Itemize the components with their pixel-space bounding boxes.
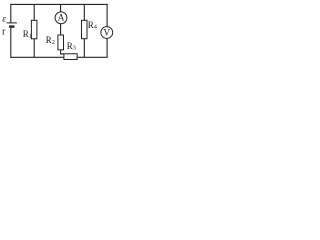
wire R4 bottom lead: [83, 39, 85, 58]
battery cell long plate: [7, 22, 17, 24]
wire right border lower: [106, 39, 108, 58]
battery cell short thick plate: [9, 25, 14, 27]
resistor R1: [31, 20, 37, 39]
wire left border lower: [10, 28, 12, 58]
ammeter U-A circle: [55, 12, 67, 24]
resistor R4: [82, 20, 88, 38]
wire R2 bottom elbow: [61, 50, 64, 54]
wire right border upper: [106, 4, 108, 26]
wire ammeter top lead: [60, 4, 62, 11]
resistor R2: [58, 35, 64, 50]
wire left border upper (battery lead): [10, 4, 12, 23]
resistor R3: [64, 54, 77, 60]
wire R1 top lead: [33, 4, 35, 20]
wire R4 top lead: [83, 4, 85, 20]
wire bottom border: [10, 56, 107, 58]
svg-text:ε: ε: [2, 14, 6, 24]
voltmeter U-V circle: [101, 27, 113, 39]
wire ammeter to R2: [60, 24, 62, 35]
wire top border: [10, 3, 107, 5]
wire R1 bottom lead: [33, 39, 35, 58]
svg-text:V: V: [103, 29, 110, 39]
svg-text:A: A: [58, 14, 65, 24]
